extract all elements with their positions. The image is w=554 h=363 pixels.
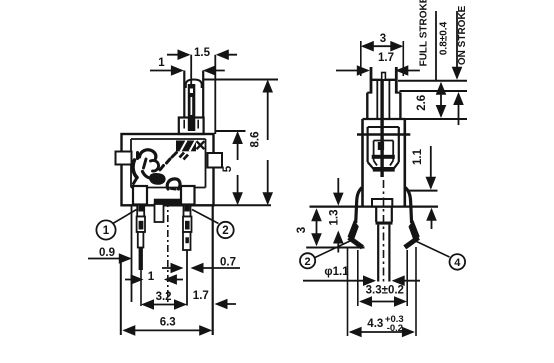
on stroke arrow <box>453 92 464 125</box>
dim 1 bottom arrows <box>125 274 183 285</box>
center stem <box>380 81 383 178</box>
dim 4.3 ext left <box>347 247 349 336</box>
dim 1.7R arrows <box>336 65 420 76</box>
dim 1.5 ext line right <box>214 55 216 134</box>
dim 1.1R text <box>412 148 424 165</box>
callout circle 2 <box>217 222 233 238</box>
dim 1.1R arrows <box>426 146 437 229</box>
svg-text:3.3±0.2: 3.3±0.2 <box>366 285 404 297</box>
dim 1.3 arrow up <box>333 231 344 253</box>
flange line <box>363 118 405 120</box>
ref line top (8.6) <box>203 79 278 81</box>
right clip arm <box>405 188 420 248</box>
callout circle 2R <box>300 253 315 268</box>
dim 6.3 ext right <box>212 205 214 335</box>
svg-text:1.5: 1.5 <box>194 47 211 59</box>
divider line <box>435 11 437 80</box>
dim 3R text <box>296 227 308 233</box>
svg-text:0.7: 0.7 <box>220 257 236 269</box>
contact black square <box>378 142 384 150</box>
plunger side right <box>395 67 398 94</box>
plunger side left <box>370 67 373 94</box>
svg-text:1.3: 1.3 <box>329 210 341 226</box>
svg-text:1.1: 1.1 <box>412 148 424 165</box>
leg pin right <box>388 225 390 282</box>
dim 4.3 text <box>367 314 403 334</box>
collar <box>179 118 204 135</box>
contact crossbar <box>372 155 395 159</box>
dim 6.3 text <box>160 317 176 329</box>
terminal 1 boss <box>133 186 147 205</box>
dim 1 text <box>158 57 165 69</box>
svg-text:3: 3 <box>296 227 308 233</box>
center line (dash-dot right) <box>383 180 385 283</box>
dim 0.7 text <box>220 257 236 269</box>
dim 2.6 text <box>416 95 428 111</box>
plunger stem <box>188 84 196 131</box>
svg-text:3.2: 3.2 <box>156 291 172 303</box>
center post <box>155 204 164 222</box>
dim 3.2 ext left <box>140 262 142 306</box>
bell wall right <box>393 127 399 169</box>
svg-text:5: 5 <box>222 165 234 172</box>
left clip arm <box>348 188 363 248</box>
0.8±0.4 text <box>439 21 450 55</box>
svg-text:1: 1 <box>158 57 165 69</box>
svg-text:6.3: 6.3 <box>160 317 176 329</box>
dim 1.7R text <box>378 52 394 64</box>
body side left <box>361 119 364 207</box>
plunger inner tip <box>382 73 386 80</box>
dim 3 top arrows <box>361 41 404 52</box>
dim 3 ext left <box>360 41 362 76</box>
bell top <box>368 126 399 128</box>
terminal 2 neck <box>184 205 191 217</box>
step line <box>357 133 410 136</box>
upper side left <box>366 93 368 119</box>
collar inner detail <box>184 120 198 129</box>
dim 3 ext right <box>402 41 404 76</box>
dim 0.9 ext <box>131 205 133 303</box>
dim 1.5 arrows <box>167 49 237 60</box>
body side right <box>403 119 406 207</box>
svg-text:8.6: 8.6 <box>250 132 262 148</box>
ref line A <box>398 80 467 82</box>
step shoulder <box>367 92 400 94</box>
body inner wall right <box>205 139 207 188</box>
ref line C <box>402 118 467 120</box>
svg-text:FULL STROKE: FULL STROKE <box>419 0 430 66</box>
contact inner box <box>374 141 394 166</box>
dim 1.5 ext line left <box>190 55 192 84</box>
body outer rect <box>122 134 214 205</box>
callout circle 1 <box>96 220 115 239</box>
body inner bottom <box>131 187 206 189</box>
dim 3R arrows <box>311 208 322 246</box>
svg-text:1.7: 1.7 <box>193 290 209 302</box>
svg-text:1: 1 <box>148 271 155 283</box>
callout 2 leader <box>192 210 219 224</box>
terminal 1 pin <box>139 248 143 271</box>
dim 5 text <box>222 165 234 172</box>
plunger right edge <box>202 71 204 119</box>
dim 4.3 ext right <box>415 247 417 336</box>
contact detail top-right <box>176 141 204 160</box>
body inner wall left <box>130 139 132 188</box>
internal spring scribble <box>133 150 180 189</box>
ON STROKE text <box>457 5 468 65</box>
terminal 1 neck <box>137 205 144 217</box>
left side boss <box>116 152 132 165</box>
callout 2R leader <box>315 241 351 258</box>
body inner top <box>131 138 206 140</box>
dim 8.6 text <box>250 132 262 148</box>
phi1.1 arrows <box>303 275 420 286</box>
plunger inner left <box>376 81 378 119</box>
terminal 2 boss <box>181 186 195 205</box>
dim 3.3 arrows <box>359 296 407 307</box>
svg-text:2: 2 <box>222 225 228 237</box>
dim 3 top text <box>380 33 386 45</box>
dim 0.9 arrow <box>88 253 132 264</box>
plunger cap <box>370 79 397 81</box>
dim 3.3 ext right <box>406 250 408 306</box>
dim 5 arrows <box>232 131 243 205</box>
leg step bar <box>376 222 393 225</box>
svg-text:φ1.1: φ1.1 <box>324 266 349 278</box>
bottom thick band <box>154 199 181 207</box>
upper side right <box>399 93 401 119</box>
center line (dash-dot) <box>167 200 169 302</box>
svg-text:2.6: 2.6 <box>416 95 428 111</box>
dim 3.3 ext left <box>357 250 359 306</box>
terminal 1 pin outline <box>138 232 144 248</box>
leg pin left <box>377 225 379 282</box>
FULL STROKE text <box>419 0 430 66</box>
ref line seat bottom <box>306 247 364 249</box>
plunger inner right <box>388 81 390 119</box>
callout 4 leader <box>416 241 450 257</box>
dim 1 bottom text <box>148 271 155 283</box>
terminal 2 pin line <box>186 250 188 306</box>
dim 3.2 text <box>156 291 172 303</box>
dim 1.7L text <box>193 290 209 302</box>
callout 1 leader <box>113 210 137 224</box>
svg-text:1.7: 1.7 <box>378 52 394 64</box>
terminal 1 mid box <box>137 217 145 233</box>
terminal 2 mid box <box>183 217 192 233</box>
svg-text:2: 2 <box>305 256 311 268</box>
dim 3.2 arrows <box>141 299 187 310</box>
plunger dome <box>186 80 202 89</box>
svg-text:1: 1 <box>103 225 110 237</box>
plate line <box>310 206 439 208</box>
plunger left edge <box>183 71 185 119</box>
phi1.1 text <box>324 266 349 278</box>
dim 0.9 text <box>99 247 115 259</box>
plate box <box>372 199 392 207</box>
bell wall left <box>368 127 374 169</box>
dim 1.5 text <box>194 47 211 59</box>
terminal 2 pin outline <box>183 232 191 250</box>
dim 1.3 text <box>329 210 341 226</box>
ref line bottom (body) <box>214 204 272 206</box>
dim 2.6 arrows <box>436 82 447 118</box>
svg-text:0.9: 0.9 <box>99 247 115 259</box>
bell bottom bar <box>373 167 395 172</box>
ref line (5 top) <box>215 130 245 132</box>
leg housing <box>376 207 392 222</box>
dim 6.3 arrows <box>122 325 212 336</box>
full stroke arrow <box>452 11 463 80</box>
dim 1.7L arrow <box>215 299 237 310</box>
dim 1 arrows <box>150 65 225 76</box>
dim 4.3 arrows <box>349 327 415 338</box>
svg-text:ON STROKE: ON STROKE <box>457 5 468 65</box>
dim 1.3 arrow down <box>333 178 344 206</box>
svg-text:0.8±0.4: 0.8±0.4 <box>439 21 450 55</box>
dim 3.3 text <box>366 285 404 297</box>
dim 8.6 arrows <box>262 80 273 206</box>
svg-text:3: 3 <box>380 33 386 45</box>
dim 0.7 arrows <box>162 263 240 274</box>
right side boss <box>208 153 223 168</box>
ref line 1.1 top <box>408 190 437 192</box>
svg-text:4: 4 <box>454 257 461 269</box>
ref line B <box>400 90 468 92</box>
svg-text:4.3: 4.3 <box>367 318 383 330</box>
dim 6.3 ext left <box>120 262 122 335</box>
callout circle 4 <box>450 254 466 270</box>
